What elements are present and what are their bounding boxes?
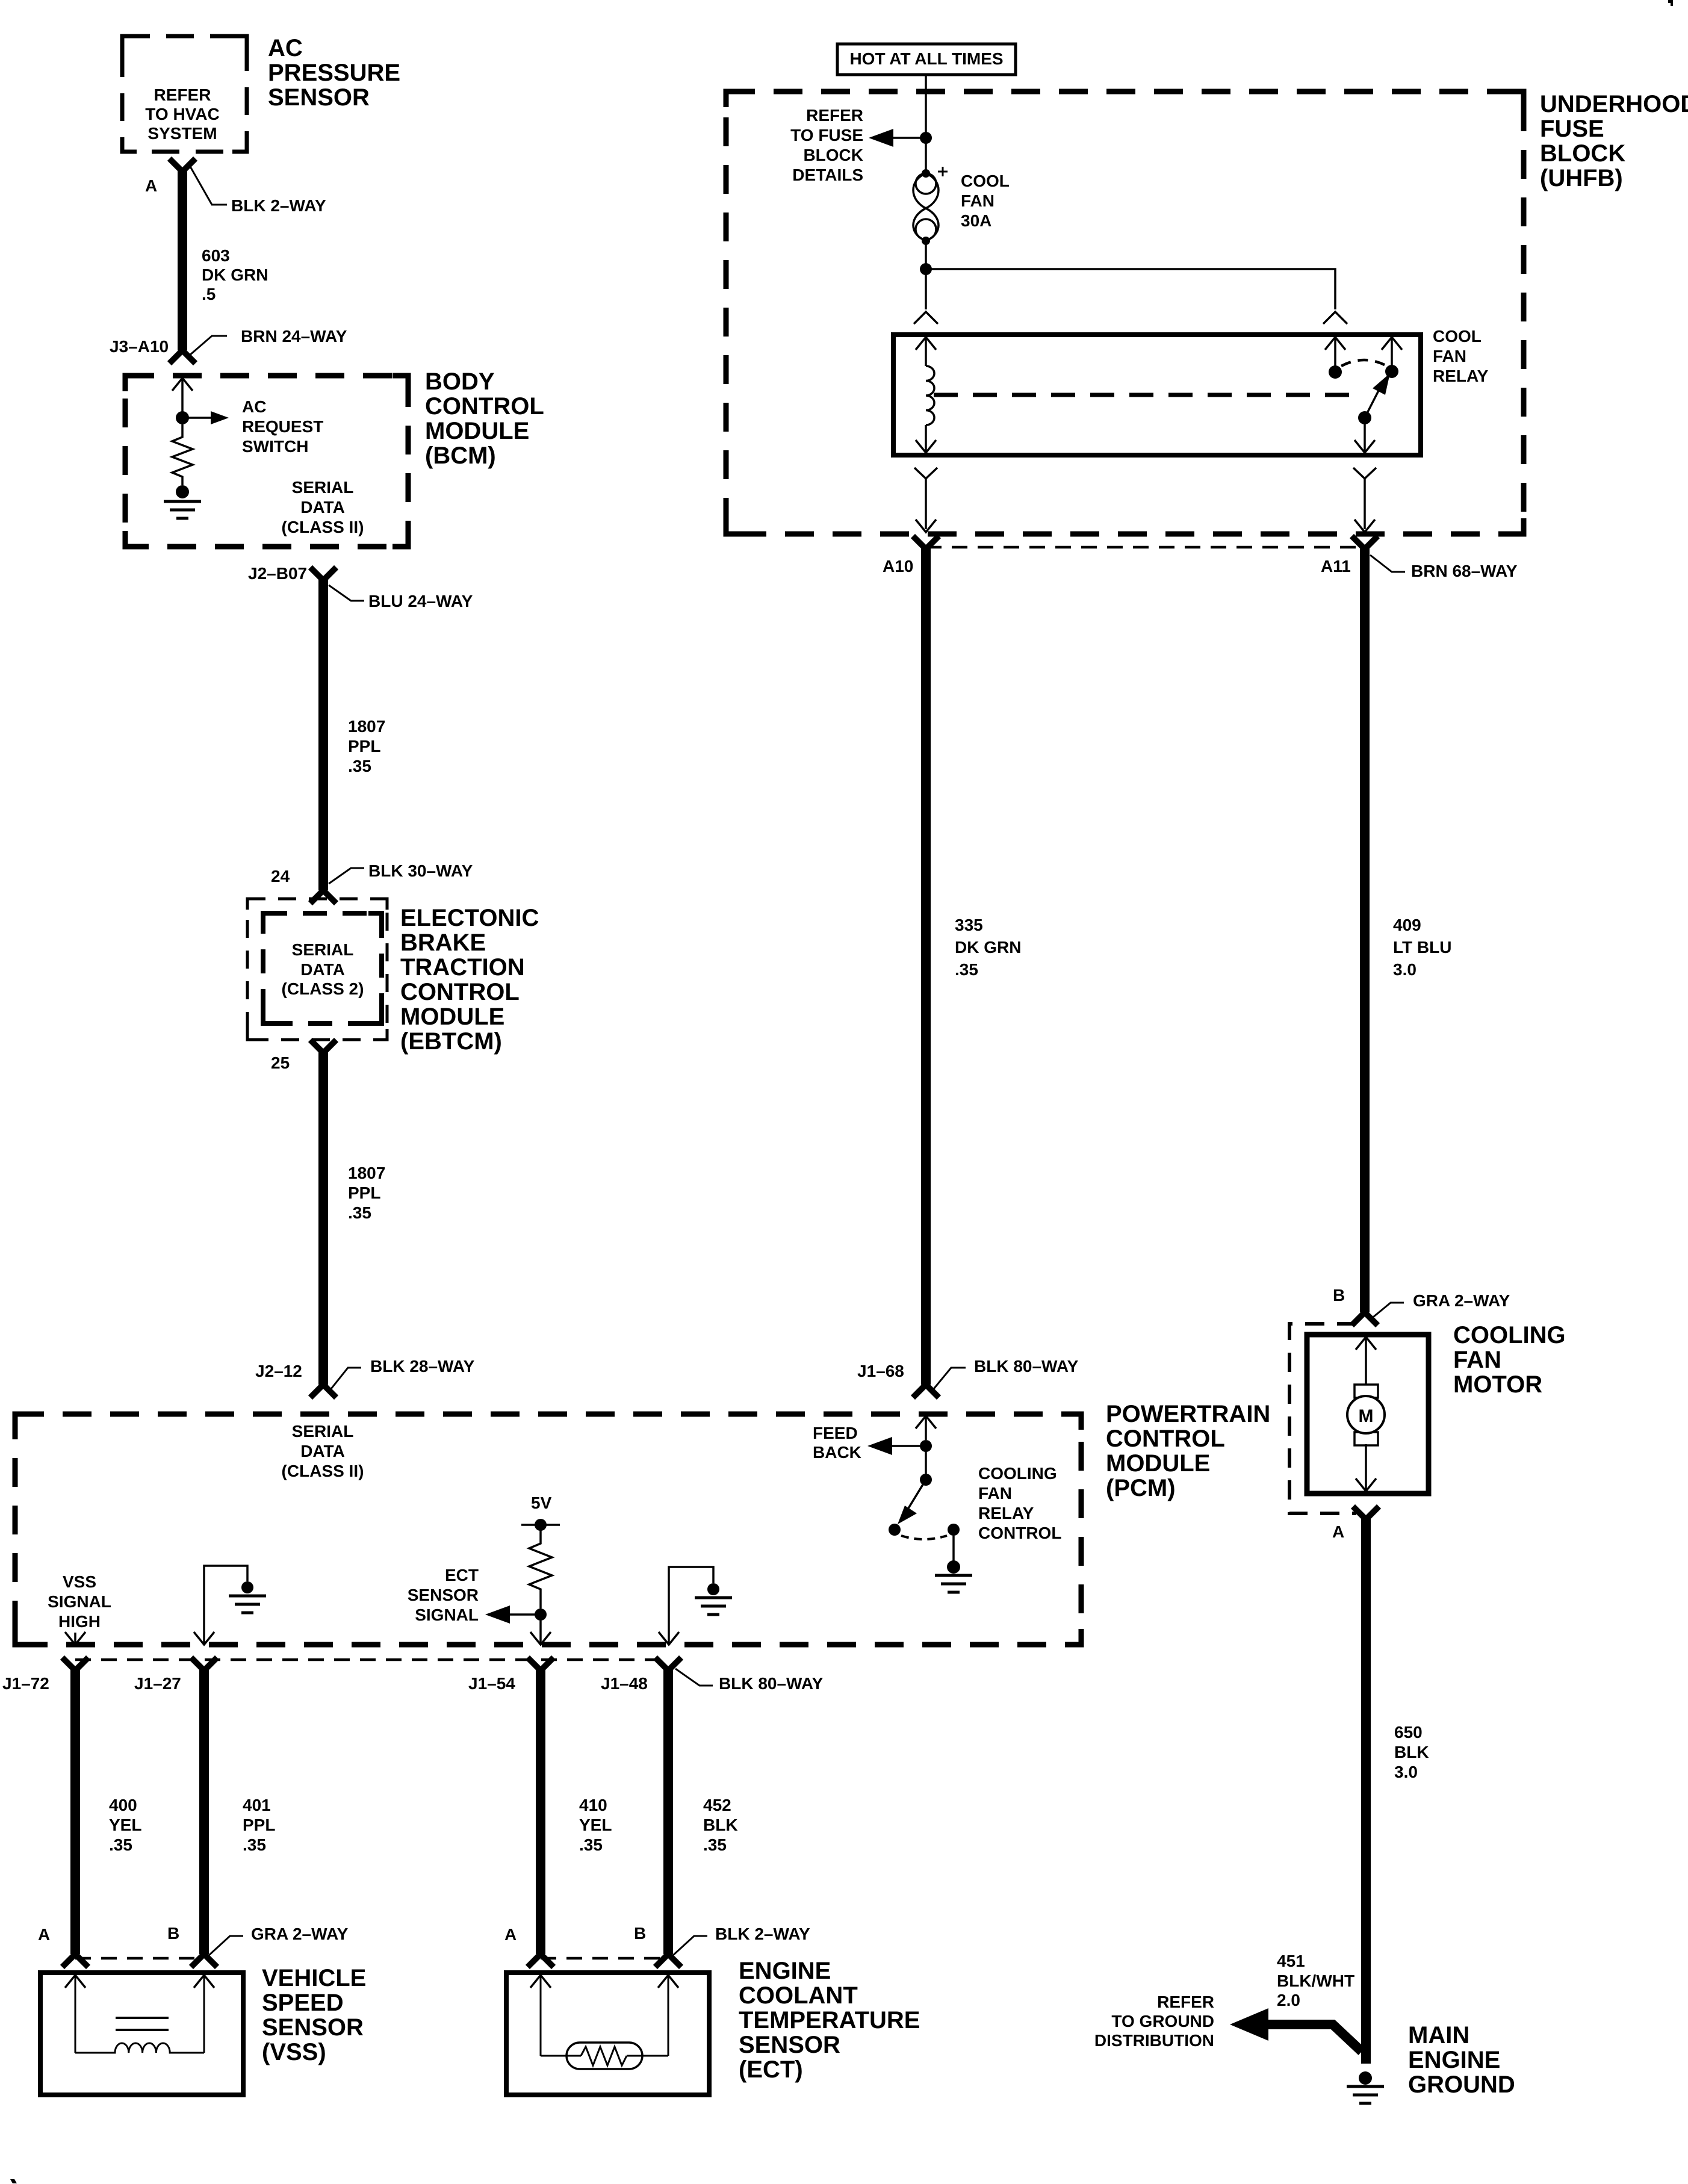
svg-text:ENGINE: ENGINE xyxy=(739,1958,831,1984)
SERIAL DATA (CLASS 2) label in EBTCM xyxy=(282,940,364,998)
ECT sensor signal arrow xyxy=(485,1605,541,1624)
svg-text:B: B xyxy=(1333,1286,1345,1305)
wire label 603 DK GRN .5 xyxy=(202,246,268,303)
svg-text:MAIN: MAIN xyxy=(1408,2022,1469,2049)
svg-text:REFER: REFER xyxy=(806,106,863,125)
connector label BLK 80-WAY (J1) xyxy=(675,1669,824,1693)
ECT signal junction dot xyxy=(535,1609,547,1621)
wire 603 DK GRN .5 (AC pressure sensor to BCM) xyxy=(172,161,193,361)
svg-text:SERIAL: SERIAL xyxy=(292,940,354,959)
svg-text:DATA: DATA xyxy=(300,1442,345,1460)
svg-text:.35: .35 xyxy=(243,1835,266,1854)
relay switch fixed contact arrow (from fuse) xyxy=(1325,337,1345,366)
J1 connector dashed line xyxy=(75,1658,669,1661)
scan artifact bottom-left xyxy=(10,2179,17,2183)
svg-text:BLU 24–WAY: BLU 24–WAY xyxy=(368,592,473,610)
ENGINE COOLANT TEMPERATURE SENSOR (ECT) label xyxy=(739,1958,920,2083)
wire label 451 BLK/WHT 2.0 xyxy=(1277,1952,1354,2009)
svg-text:(VSS): (VSS) xyxy=(262,2039,326,2065)
svg-text:DISTRIBUTION: DISTRIBUTION xyxy=(1094,2031,1214,2050)
svg-text:MOTOR: MOTOR xyxy=(1453,1371,1542,1398)
connector label GRA 2-WAY (fan motor) xyxy=(1370,1291,1510,1320)
COOLING FAN MOTOR label xyxy=(1453,1322,1566,1398)
ground symbol (relay control) xyxy=(935,1575,972,1592)
feed back junction dot xyxy=(920,1440,932,1452)
svg-text:PPL: PPL xyxy=(348,737,380,755)
BODY CONTROL MODULE (BCM) label xyxy=(425,368,544,469)
wire 409 LT BLU (A11 to cooling fan motor) xyxy=(1354,538,1376,1323)
svg-text:ELECTONIC: ELECTONIC xyxy=(400,905,539,931)
svg-text:CONTROL: CONTROL xyxy=(978,1524,1061,1542)
fuse label COOL FAN 30A xyxy=(961,172,1010,230)
relay control ground wire xyxy=(952,1536,955,1562)
svg-text:603: 603 xyxy=(202,246,230,265)
svg-text:DETAILS: DETAILS xyxy=(792,166,863,184)
svg-text:J1–48: J1–48 xyxy=(601,1674,648,1693)
svg-text:1807: 1807 xyxy=(348,717,385,736)
relay switch output pin arrow (top) xyxy=(1382,337,1402,365)
PCM entry arrow (J1-68) xyxy=(916,1416,936,1440)
svg-text:BLK 80–WAY: BLK 80–WAY xyxy=(974,1357,1079,1376)
svg-text:UNDERHOOD: UNDERHOOD xyxy=(1540,91,1688,117)
svg-text:ECT: ECT xyxy=(445,1566,479,1584)
ECT SENSOR SIGNAL label xyxy=(408,1566,479,1624)
connector label BRN 24-WAY xyxy=(190,327,347,355)
svg-text:TRACTION: TRACTION xyxy=(400,954,525,981)
svg-text:(CLASS II): (CLASS II) xyxy=(282,1462,364,1480)
junction dot (AC request switch node) xyxy=(176,411,189,424)
relay switch output contact dot xyxy=(1385,365,1398,378)
wire 650 BLK (fan motor to ground) xyxy=(1355,1509,1377,2064)
ELECTONIC BRAKE TRACTION CONTROL MODULE (EBTCM) label xyxy=(400,905,539,1055)
J1-48 ground circuit xyxy=(659,1567,713,1645)
svg-text:COOLING: COOLING xyxy=(1453,1322,1566,1348)
svg-text:SENSOR: SENSOR xyxy=(262,2014,364,2041)
svg-text:(CLASS 2): (CLASS 2) xyxy=(282,979,364,998)
main engine ground symbol xyxy=(1347,2086,1384,2103)
svg-text:ENGINE: ENGINE xyxy=(1408,2047,1500,2073)
svg-text:J1–27: J1–27 xyxy=(134,1674,181,1693)
svg-text:3.0: 3.0 xyxy=(1394,1763,1418,1781)
svg-text:BLK/WHT: BLK/WHT xyxy=(1277,1971,1354,1990)
wire from HOT box into fuse block xyxy=(925,75,927,132)
svg-text:J2–B07: J2–B07 xyxy=(248,564,307,583)
VSS SIGNAL HIGH label xyxy=(48,1572,111,1631)
svg-text:FAN: FAN xyxy=(978,1484,1012,1503)
svg-text:GRA 2–WAY: GRA 2–WAY xyxy=(251,1925,349,1943)
svg-text:452: 452 xyxy=(703,1796,731,1814)
svg-text:PRESSURE: PRESSURE xyxy=(268,60,400,86)
svg-text:AC: AC xyxy=(242,397,266,416)
BCM entry arrow from AC pressure sensor xyxy=(172,378,193,412)
svg-text:.35: .35 xyxy=(348,1203,371,1222)
fuse COOL FAN 30A symbol xyxy=(913,167,948,245)
svg-text:(BCM): (BCM) xyxy=(425,442,496,469)
REFER TO GROUND DISTRIBUTION label xyxy=(1094,1993,1214,2050)
svg-text:5V: 5V xyxy=(531,1494,552,1512)
resistor (ECT pull-up) xyxy=(529,1525,552,1609)
wire 1807 PPL (EBTCM to PCM) xyxy=(312,1042,334,1395)
svg-text:DK GRN: DK GRN xyxy=(955,938,1021,957)
wire junction to relay coil xyxy=(925,269,927,309)
wire label 410 YEL .35 xyxy=(579,1796,612,1854)
svg-text:TO GROUND: TO GROUND xyxy=(1111,2012,1214,2030)
wire 410 YEL (J1-54 to ECT A) xyxy=(530,1660,551,1965)
svg-text:DK GRN: DK GRN xyxy=(202,265,268,284)
svg-text:REFER: REFER xyxy=(1157,1993,1214,2011)
VSS connector dashed line xyxy=(75,1957,204,1960)
svg-text:SERIAL: SERIAL xyxy=(292,478,354,497)
svg-text:409: 409 xyxy=(1393,916,1421,934)
relay coil pin arrow (top) xyxy=(916,337,936,366)
relay internal dashed link xyxy=(934,393,1357,397)
svg-text:.35: .35 xyxy=(348,757,371,775)
svg-text:J1–54: J1–54 xyxy=(468,1674,515,1693)
connector label BLK 80-WAY (J1-68) xyxy=(931,1357,1079,1392)
svg-text:CONTROL: CONTROL xyxy=(425,393,544,420)
SERIAL DATA (CLASS II) label in PCM xyxy=(282,1422,364,1480)
svg-text:BLK 30–WAY: BLK 30–WAY xyxy=(368,861,473,880)
MAIN ENGINE GROUND label xyxy=(1408,2022,1515,2098)
svg-text:FAN: FAN xyxy=(1433,347,1466,365)
relay control ground contact dot xyxy=(948,1524,960,1536)
connector label GRA 2-WAY (VSS) xyxy=(209,1925,349,1955)
ground symbol (J1-27) xyxy=(229,1596,266,1613)
connector label BLK 30-WAY xyxy=(329,861,473,884)
svg-text:3.0: 3.0 xyxy=(1393,960,1416,979)
feed back arrow xyxy=(867,1437,926,1455)
svg-text:HIGH: HIGH xyxy=(58,1612,101,1631)
svg-text:COOLANT: COOLANT xyxy=(739,1982,858,2009)
wire label 1807 PPL .35 (lower) xyxy=(348,1164,385,1222)
relay control switch arm with arrowhead xyxy=(898,1480,926,1524)
svg-text:AC: AC xyxy=(268,35,303,61)
svg-text:COOL: COOL xyxy=(1433,327,1482,346)
svg-text:SENSOR: SENSOR xyxy=(739,2032,840,2058)
FEED BACK label xyxy=(813,1424,861,1462)
junction dot (relay feed) xyxy=(920,263,932,275)
junction dot (fuse feed) xyxy=(920,132,932,144)
svg-text:A10: A10 xyxy=(883,557,913,575)
relay control switch dot xyxy=(920,1474,932,1486)
svg-text:REQUEST: REQUEST xyxy=(242,417,323,436)
svg-text:(ECT): (ECT) xyxy=(739,2056,803,2083)
svg-text:YEL: YEL xyxy=(579,1816,612,1834)
relay control dashed arc xyxy=(901,1536,947,1539)
svg-text:CONTROL: CONTROL xyxy=(400,979,520,1005)
svg-text:BLOCK: BLOCK xyxy=(803,146,863,164)
svg-text:BLK 2–WAY: BLK 2–WAY xyxy=(231,196,326,215)
svg-text:RELAY: RELAY xyxy=(978,1504,1034,1522)
relay coil xyxy=(926,366,934,425)
svg-text:VEHICLE: VEHICLE xyxy=(262,1965,366,1991)
svg-text:COOL: COOL xyxy=(961,172,1010,190)
svg-text:PPL: PPL xyxy=(243,1816,275,1834)
svg-text:.35: .35 xyxy=(955,960,978,979)
svg-text:YEL: YEL xyxy=(109,1816,141,1834)
chevron into relay box (coil side) xyxy=(914,312,938,324)
svg-text:J1–72: J1–72 xyxy=(2,1674,49,1693)
HOT AT ALL TIMES box xyxy=(837,44,1016,75)
PCM exit arrow (J1-72) xyxy=(65,1632,85,1645)
svg-text:BODY: BODY xyxy=(425,368,495,395)
AC pressure sensor dashed box (refer to HVAC system) xyxy=(122,36,247,152)
svg-text:BRAKE: BRAKE xyxy=(400,929,486,956)
svg-text:POWERTRAIN: POWERTRAIN xyxy=(1106,1401,1270,1427)
VSS pickup coil xyxy=(75,2043,204,2053)
chevron into relay box (switch side) xyxy=(1323,312,1347,324)
svg-text:BRN 68–WAY: BRN 68–WAY xyxy=(1411,562,1518,580)
svg-text:MODULE: MODULE xyxy=(400,1004,504,1030)
COOL FAN RELAY box xyxy=(893,335,1421,455)
REFER TO FUSE BLOCK DETAILS label xyxy=(790,106,863,184)
svg-text:335: 335 xyxy=(955,916,983,934)
svg-text:FUSE: FUSE xyxy=(1540,116,1604,142)
svg-text:BLK 80–WAY: BLK 80–WAY xyxy=(719,1674,824,1693)
PCM exit arrow (J1-54) xyxy=(530,1621,551,1645)
BCM dashed box xyxy=(125,376,408,547)
VSS pin arrow A xyxy=(65,1975,85,2053)
POWERTRAIN CONTROL MODULE (PCM) label xyxy=(1106,1401,1270,1501)
VSS coil core lines xyxy=(116,2018,169,2030)
svg-text:TO FUSE: TO FUSE xyxy=(790,126,863,144)
ground dot (J1-27) xyxy=(241,1581,253,1593)
fuse details arrow xyxy=(869,129,926,147)
svg-text:B: B xyxy=(634,1924,646,1943)
svg-text:.5: .5 xyxy=(202,285,216,303)
motor exit arrow xyxy=(1356,1444,1376,1491)
svg-text:BACK: BACK xyxy=(813,1443,861,1462)
svg-text:REFER: REFER xyxy=(154,85,211,104)
relay switch travel arc (dashed) xyxy=(1341,360,1387,366)
svg-text:MODULE: MODULE xyxy=(1106,1450,1210,1477)
motor symbol M xyxy=(1347,1385,1385,1445)
relay control switch shaft xyxy=(925,1446,927,1474)
wire label 401 PPL .35 xyxy=(243,1796,275,1854)
svg-text:30A: 30A xyxy=(961,211,991,230)
svg-text:BLK 28–WAY: BLK 28–WAY xyxy=(370,1357,475,1376)
ECT box xyxy=(506,1973,709,2095)
svg-text:451: 451 xyxy=(1277,1952,1305,1970)
VSS pin arrow B xyxy=(194,1975,214,2053)
svg-text:SENSOR: SENSOR xyxy=(408,1586,479,1604)
AC request switch arrow xyxy=(182,411,229,424)
svg-text:TO HVAC: TO HVAC xyxy=(145,105,219,123)
svg-text:BLK: BLK xyxy=(703,1816,738,1834)
svg-text:LT BLU: LT BLU xyxy=(1393,938,1451,957)
resistor (AC request switch) xyxy=(172,424,193,485)
svg-text:J3–A10: J3–A10 xyxy=(110,337,169,356)
ECT pin arrow B xyxy=(658,1975,678,2056)
wire label 335 DK GRN .35 xyxy=(955,916,1021,979)
SERIAL DATA (CLASS II) label in BCM xyxy=(282,478,364,536)
svg-text:400: 400 xyxy=(109,1796,137,1814)
AC REQUEST SWITCH label xyxy=(242,397,323,456)
relay output connector fork (coil side) xyxy=(914,468,937,532)
connector label BLK 2-WAY xyxy=(190,166,326,215)
main engine ground dot xyxy=(1359,2071,1372,2085)
svg-text:FEED: FEED xyxy=(813,1424,858,1442)
svg-text:.35: .35 xyxy=(579,1835,603,1854)
svg-text:SWITCH: SWITCH xyxy=(242,437,308,456)
ECT connector dashed line xyxy=(541,1957,668,1960)
wire junction to fuse xyxy=(925,138,927,173)
VSS box xyxy=(40,1973,243,2095)
svg-text:A: A xyxy=(1332,1522,1344,1541)
relay coil pin arrow (bottom) xyxy=(916,425,936,453)
wire label 452 BLK .35 xyxy=(703,1796,738,1854)
svg-text:HOT AT ALL TIMES: HOT AT ALL TIMES xyxy=(849,49,1003,68)
scan artifact top-right xyxy=(1668,0,1673,6)
cooling fan motor solid box xyxy=(1307,1335,1429,1494)
wire label 409 LT BLU 3.0 xyxy=(1393,916,1451,979)
svg-text:BRN 24–WAY: BRN 24–WAY xyxy=(241,327,347,346)
svg-text:DATA: DATA xyxy=(300,960,345,979)
cooling fan motor dashed box xyxy=(1289,1324,1356,1513)
svg-text:A: A xyxy=(504,1925,517,1944)
ground dot (AC request switch) xyxy=(176,485,189,498)
svg-text:SIGNAL: SIGNAL xyxy=(415,1605,479,1624)
wire label 650 BLK 3.0 xyxy=(1394,1723,1429,1781)
svg-text:FAN: FAN xyxy=(1453,1347,1501,1373)
svg-text:VSS: VSS xyxy=(63,1572,96,1591)
svg-text:A11: A11 xyxy=(1321,557,1351,575)
relay switch arm with arrowhead xyxy=(1365,373,1390,418)
ground symbol (AC request switch) xyxy=(164,501,201,518)
svg-text:J1–68: J1–68 xyxy=(857,1362,904,1380)
svg-text:.35: .35 xyxy=(109,1835,132,1854)
svg-text:SENSOR: SENSOR xyxy=(268,84,370,111)
svg-text:25: 25 xyxy=(271,1053,290,1072)
wire 452 BLK (J1-48 to ECT B) xyxy=(657,1660,679,1965)
ground symbol (J1-48) xyxy=(695,1598,732,1615)
wire 1807 PPL (BCM to EBTCM) xyxy=(312,569,334,901)
svg-text:J2–12: J2–12 xyxy=(255,1362,302,1380)
svg-text:SPEED: SPEED xyxy=(262,1990,344,2016)
PCM dashed box xyxy=(15,1414,1081,1645)
svg-text:GROUND: GROUND xyxy=(1408,2071,1515,2098)
svg-text:BLK 2–WAY: BLK 2–WAY xyxy=(715,1925,810,1943)
svg-text:(UHFB): (UHFB) xyxy=(1540,165,1623,191)
relay switch contact dot (common) xyxy=(1329,365,1342,379)
relay switch arm pin arrow (bottom) xyxy=(1354,418,1375,453)
UHFB dashed box xyxy=(726,92,1524,534)
UNDERHOOD FUSE BLOCK (UHFB) label xyxy=(1540,91,1688,191)
svg-text:SERIAL: SERIAL xyxy=(292,1422,354,1441)
relay control contact dot xyxy=(889,1524,901,1536)
REFER TO HVAC SYSTEM label xyxy=(145,85,219,143)
ground distribution branch wire 451 xyxy=(1230,2008,1362,2052)
AC PRESSURE SENSOR label xyxy=(268,35,400,111)
svg-text:TEMPERATURE: TEMPERATURE xyxy=(739,2007,920,2034)
wire label 1807 PPL .35 xyxy=(348,717,385,775)
UHFB output connector dashed line (A10-A11) xyxy=(926,546,1365,549)
wire fuse to junction dot xyxy=(925,241,927,269)
svg-text:GRA 2–WAY: GRA 2–WAY xyxy=(1413,1291,1510,1310)
svg-text:1807: 1807 xyxy=(348,1164,385,1182)
ground dot (J1-48) xyxy=(707,1583,719,1595)
relay output connector fork (switch side) xyxy=(1353,468,1376,532)
svg-text:RELAY: RELAY xyxy=(1433,367,1489,385)
svg-text:401: 401 xyxy=(243,1796,271,1814)
COOL FAN RELAY label xyxy=(1433,327,1489,385)
svg-text:DATA: DATA xyxy=(300,498,345,517)
svg-text:FAN: FAN xyxy=(961,191,994,210)
wire label 400 YEL .35 xyxy=(109,1796,141,1854)
COOLING FAN RELAY CONTROL label xyxy=(978,1464,1061,1542)
connector label BRN 68-WAY xyxy=(1370,555,1518,580)
svg-text:A: A xyxy=(38,1925,50,1944)
svg-text:BLOCK: BLOCK xyxy=(1540,140,1625,167)
wire 400 YEL (J1-72 to VSS A) xyxy=(64,1660,86,1965)
svg-text:(PCM): (PCM) xyxy=(1106,1475,1176,1501)
motor entry arrow xyxy=(1356,1337,1376,1386)
relay switch arm pivot dot xyxy=(1358,411,1371,424)
relay control ground dot xyxy=(947,1560,960,1574)
svg-text:A: A xyxy=(145,176,157,195)
EBTCM outer dashed box xyxy=(247,899,387,1040)
connector label BLK 2-WAY (ECT) xyxy=(673,1925,810,1955)
svg-text:(CLASS II): (CLASS II) xyxy=(282,518,364,536)
ECT interior wires xyxy=(541,2055,668,2057)
EBTCM inner dashed box (serial data) xyxy=(263,913,382,1023)
svg-text:SYSTEM: SYSTEM xyxy=(147,124,217,143)
VEHICLE SPEED SENSOR (VSS) label xyxy=(262,1965,366,2065)
svg-text:.35: .35 xyxy=(703,1835,727,1854)
svg-text:B: B xyxy=(167,1924,179,1943)
5V supply terminal xyxy=(521,1519,560,1531)
svg-text:650: 650 xyxy=(1394,1723,1423,1742)
svg-text:24: 24 xyxy=(271,867,290,886)
wire 401 PPL (J1-27 to VSS B) xyxy=(193,1660,215,1965)
svg-text:PPL: PPL xyxy=(348,1184,380,1202)
svg-text:MODULE: MODULE xyxy=(425,418,529,444)
connector label BLU 24-WAY xyxy=(329,585,473,610)
svg-text:410: 410 xyxy=(579,1796,607,1814)
svg-text:BLK: BLK xyxy=(1394,1743,1429,1761)
ECT pin arrow A xyxy=(530,1975,551,2056)
J1-27 ground circuit xyxy=(194,1566,247,1645)
connector label BLK 28-WAY xyxy=(329,1357,475,1392)
branch wire to relay switch xyxy=(926,269,1335,309)
svg-text:SIGNAL: SIGNAL xyxy=(48,1592,111,1611)
svg-text:2.0: 2.0 xyxy=(1277,1991,1300,2009)
svg-text:COOLING: COOLING xyxy=(978,1464,1057,1483)
ECT thermistor xyxy=(566,2043,642,2069)
svg-text:(EBTCM): (EBTCM) xyxy=(400,1028,502,1055)
svg-text:CONTROL: CONTROL xyxy=(1106,1425,1225,1452)
svg-text:M: M xyxy=(1359,1406,1374,1426)
wire 335 DK GRN (A10 to PCM J1-68) xyxy=(915,538,937,1395)
